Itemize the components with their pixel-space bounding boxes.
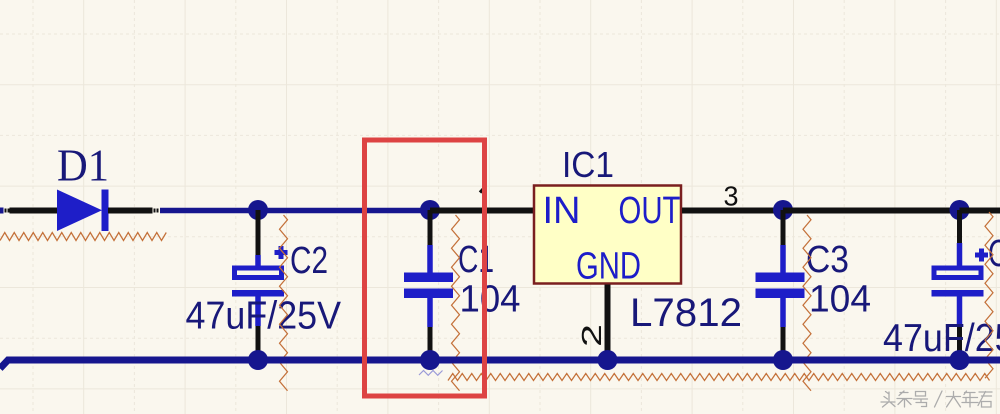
svg-text:L7812: L7812	[630, 291, 742, 335]
svg-text:C1: C1	[458, 239, 494, 281]
wire: C4 node to right edge (black)	[960, 208, 1000, 214]
svg-text:OUT: OUT	[619, 190, 681, 232]
wire break dots left	[5, 209, 10, 213]
svg-text:D1: D1	[57, 141, 109, 191]
ERC marker zigzag right of C3	[803, 215, 811, 391]
junction node C2 bottom	[248, 350, 268, 370]
highlight box (red selection rectangle)	[365, 140, 485, 396]
svg-text:C3: C3	[806, 239, 849, 281]
regulator IC1 body	[534, 186, 681, 284]
junction node C1 bottom	[420, 350, 440, 370]
diode D1	[57, 190, 109, 232]
svg-text:GND: GND	[576, 246, 641, 288]
wire: C1 upper lead (black stub)	[428, 210, 433, 246]
wire: C2 upper lead (black stub)	[256, 210, 261, 256]
ERC marker zigzag right of C2	[280, 215, 288, 391]
wire: C3 upper lead (black stub)	[781, 210, 786, 246]
wire: C1 lower lead (black stub)	[428, 327, 433, 360]
junction node C1 top	[420, 200, 440, 220]
svg-text:3: 3	[724, 181, 739, 212]
wire: C4 lower lead (black stub)	[957, 326, 962, 360]
wire: C4 upper lead (black stub)	[957, 210, 962, 244]
capacitor C2 (polarized)	[232, 246, 288, 326]
wire: net from D1 to C2 node (blue)	[160, 208, 258, 214]
capacitor C1	[404, 245, 453, 327]
junction node C4 bottom	[950, 350, 970, 370]
svg-text:104: 104	[809, 279, 871, 321]
junction node C2 top	[248, 200, 268, 220]
capacitor C3	[756, 245, 805, 327]
wire: C3 lower lead (black stub)	[781, 327, 786, 360]
wire: D1 cathode segment	[108, 208, 153, 214]
wire: input segment to D1 anode	[0, 208, 57, 214]
ERC marker zigzag right of C1	[452, 215, 460, 391]
svg-text:104: 104	[460, 279, 521, 321]
capacitor C4 (polarized)	[932, 243, 989, 326]
junction node C3 bottom	[773, 350, 793, 370]
wire break dots right of D1	[154, 209, 159, 213]
svg-text:47uF/25V: 47uF/25V	[883, 317, 1000, 360]
svg-text:IN: IN	[543, 190, 581, 232]
wire: C2 node to C1 node (blue)	[258, 208, 430, 214]
junction node C4 top	[950, 200, 970, 220]
wire: C1 node to IC1 IN pin (black)	[430, 208, 533, 214]
ERC marker zigzag right of C4	[985, 212, 993, 378]
ERC marker zigzag under input wire	[0, 233, 166, 241]
svg-text:47uF/25V: 47uF/25V	[186, 295, 342, 338]
wire: C2 lower lead (black stub)	[256, 326, 261, 360]
ground rail (bottom wire)	[0, 360, 1000, 369]
wire: OUT pin to C3 node (black)	[682, 208, 783, 214]
svg-text:IC1: IC1	[562, 144, 614, 185]
junction node GND pin bottom	[598, 350, 618, 370]
svg-text:C2: C2	[290, 240, 328, 282]
ERC marker zigzag under ground rail	[448, 374, 990, 381]
svg-text:2: 2	[576, 324, 607, 347]
wire: GND pin down to rail (black)	[605, 285, 611, 361]
watermark 头条号 / 大年君	[881, 391, 992, 407]
wire: C3 node to C4 node (black)	[783, 208, 960, 214]
junction node C3 top	[773, 200, 793, 220]
pin number 1	[480, 187, 486, 193]
ERC marker small zigzag left of rail zigzag	[419, 371, 443, 376]
